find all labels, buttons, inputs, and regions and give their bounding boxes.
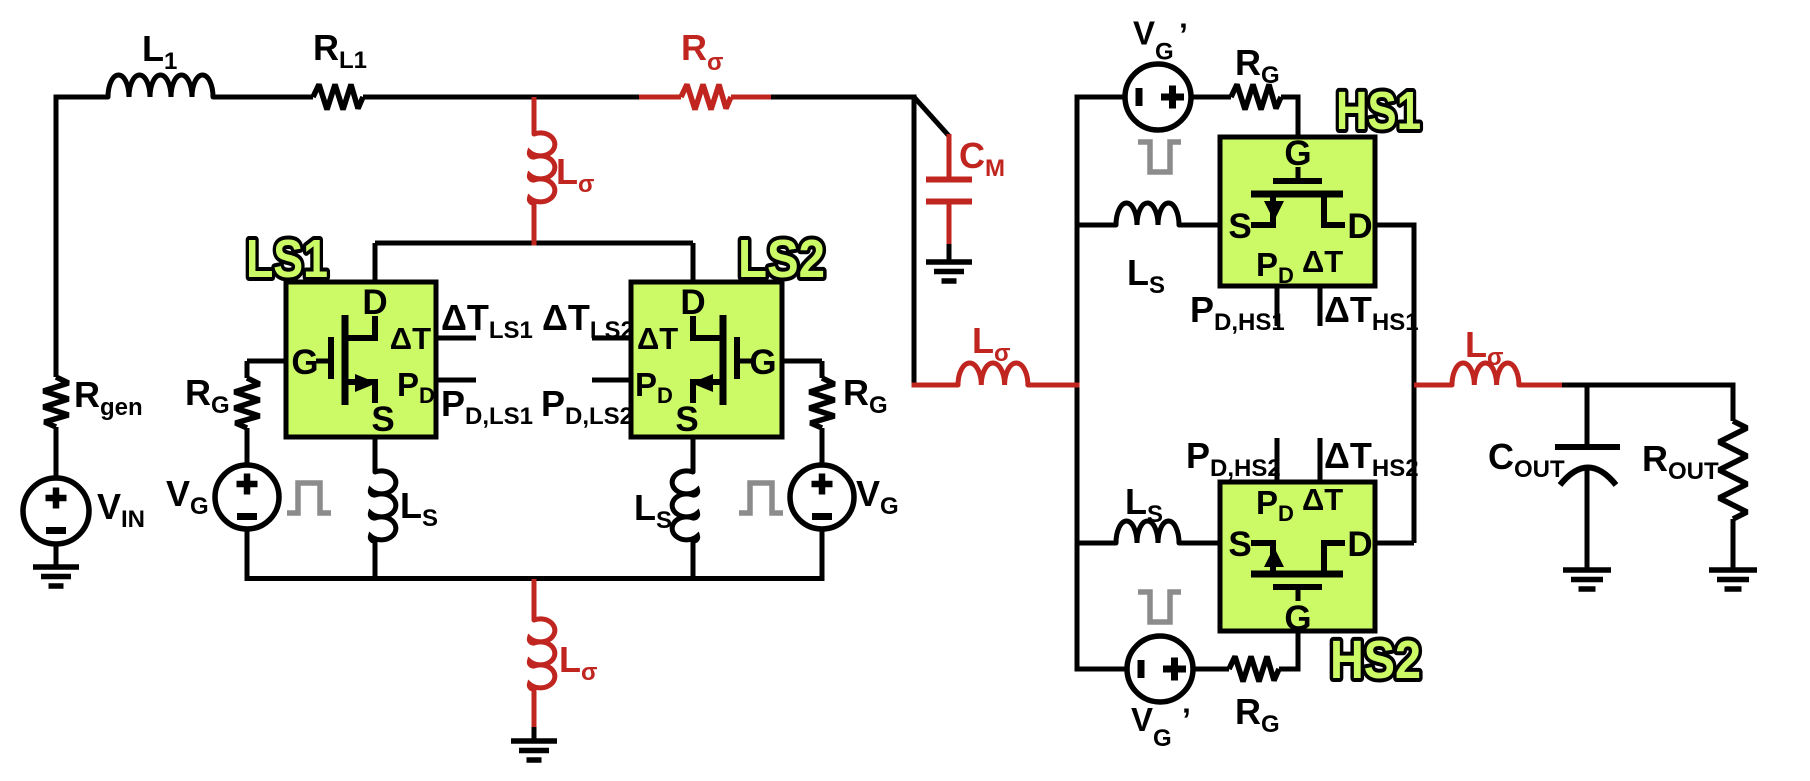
svg-text:G: G bbox=[1284, 134, 1311, 173]
svg-text:D: D bbox=[680, 283, 705, 322]
svg-text:ΔT: ΔT bbox=[390, 321, 431, 356]
svg-text:S: S bbox=[1228, 207, 1251, 246]
svg-text:ΔT: ΔT bbox=[1302, 482, 1343, 517]
svg-text:HS1: HS1 bbox=[1336, 81, 1421, 141]
svg-text:LS1: LS1 bbox=[246, 229, 328, 289]
svg-text:G: G bbox=[749, 343, 776, 382]
svg-text:ΔT: ΔT bbox=[1302, 244, 1343, 279]
svg-text:HS2: HS2 bbox=[1330, 630, 1421, 690]
svg-text:G: G bbox=[291, 343, 318, 382]
svg-text:D: D bbox=[1347, 525, 1372, 564]
svg-text:LS2: LS2 bbox=[738, 229, 825, 289]
svg-text:S: S bbox=[1228, 525, 1251, 564]
svg-text:D: D bbox=[362, 283, 387, 322]
svg-text:G: G bbox=[1284, 599, 1311, 638]
svg-text:D: D bbox=[1347, 207, 1372, 246]
svg-text:S: S bbox=[675, 400, 698, 439]
svg-text:’: ’ bbox=[1179, 17, 1188, 53]
svg-text:S: S bbox=[371, 400, 394, 439]
svg-text:’: ’ bbox=[1182, 702, 1191, 738]
svg-text:ΔT: ΔT bbox=[637, 321, 678, 356]
